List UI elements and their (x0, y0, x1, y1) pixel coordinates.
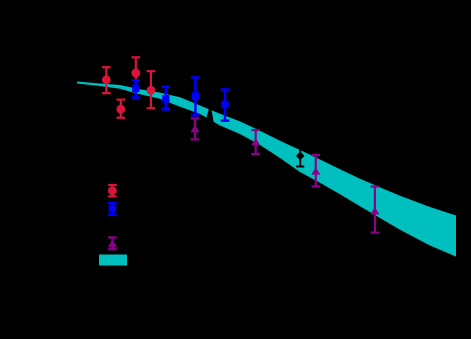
error bar B2 (162, 87, 171, 110)
legend error bar red (108, 185, 117, 196)
marker R2 red circle (131, 69, 140, 78)
marker B3 blue square (192, 92, 199, 99)
error bar R4 (147, 71, 156, 108)
legend marker red circle (108, 186, 117, 195)
marker T3 purple triangle (311, 167, 320, 174)
error bar D1 (black diamond, visible against band) (296, 145, 304, 167)
marker R1 red circle (102, 75, 111, 84)
marker B4 blue square (221, 101, 228, 108)
error bar T3 (312, 155, 321, 186)
marker T1 purple triangle (190, 125, 199, 132)
error bar B3 (191, 77, 200, 115)
black notch gap in band (207, 106, 214, 123)
marker T2 purple triangle (251, 138, 260, 145)
marker B1 blue square (132, 85, 139, 92)
legend error bar blue (108, 203, 117, 215)
marker R4 red circle (147, 86, 156, 95)
legend error bar purple (108, 237, 117, 249)
legend marker blue square (109, 205, 116, 212)
error bar R2 (132, 57, 141, 84)
marker T4 purple triangle (370, 207, 379, 214)
error bar T4 (371, 187, 380, 233)
error bar B4 (221, 90, 230, 121)
error bar T1 (191, 118, 200, 139)
marker D1 black diamond (296, 151, 304, 160)
error bar R3 (117, 100, 126, 118)
error bar T2 (251, 130, 260, 154)
error bar R1 (102, 67, 111, 93)
cyan theory uncertainty band (77, 82, 456, 257)
legend cyan band swatch (99, 255, 127, 266)
marker B2 blue square (162, 95, 169, 102)
error bar B1 (132, 80, 141, 97)
legend marker purple triangle (108, 240, 117, 247)
marker R3 red circle (116, 105, 125, 114)
